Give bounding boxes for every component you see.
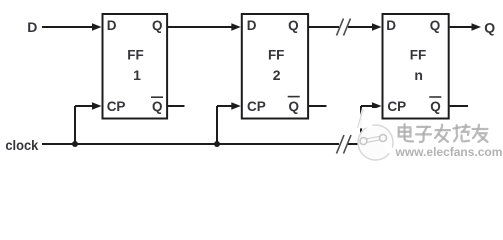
svg-text:Q: Q <box>152 99 163 114</box>
svg-text:D: D <box>27 19 37 35</box>
svg-text:CP: CP <box>107 99 126 114</box>
svg-text:FF: FF <box>127 47 144 62</box>
svg-text:Q: Q <box>430 99 441 114</box>
svg-text:n: n <box>414 67 423 83</box>
svg-text:D: D <box>386 18 396 33</box>
svg-text:D: D <box>247 18 257 33</box>
svg-text:1: 1 <box>133 67 141 83</box>
svg-text:Q: Q <box>484 19 495 35</box>
svg-text:Q: Q <box>288 99 299 114</box>
svg-text:clock: clock <box>5 138 38 154</box>
svg-text:CP: CP <box>247 99 266 114</box>
svg-text:Q: Q <box>430 18 441 33</box>
svg-text:Q: Q <box>288 18 299 33</box>
svg-text:Q: Q <box>152 18 163 33</box>
svg-text:2: 2 <box>273 67 281 83</box>
svg-text:CP: CP <box>387 99 406 114</box>
svg-text:www.elecfans.com: www.elecfans.com <box>395 145 503 159</box>
svg-text:FF: FF <box>268 47 285 62</box>
svg-text:FF: FF <box>410 47 427 62</box>
svg-text:D: D <box>107 18 117 33</box>
